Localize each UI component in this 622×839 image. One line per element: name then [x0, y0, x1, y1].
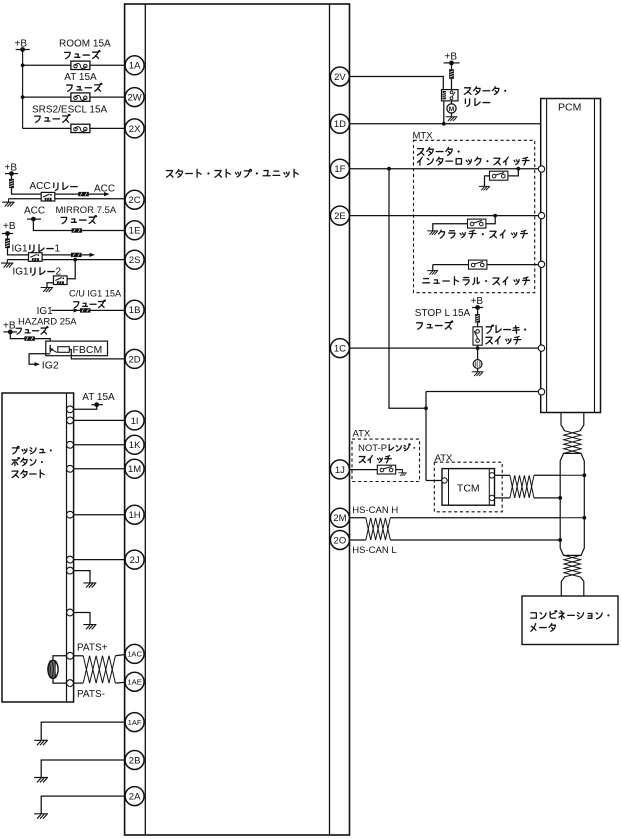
svg-text:C/U IG1 15A: C/U IG1 15A — [69, 288, 122, 298]
svg-text:2: 2 — [56, 266, 62, 277]
svg-text:1AE: 1AE — [127, 677, 141, 686]
svg-text:1K: 1K — [129, 440, 141, 451]
svg-text:HS-CAN L: HS-CAN L — [352, 545, 396, 556]
svg-text:SRS2/ESCL 15A: SRS2/ESCL 15A — [32, 104, 108, 115]
svg-text:2V: 2V — [334, 72, 346, 83]
svg-text:PATS-: PATS- — [77, 689, 105, 700]
svg-text:2J: 2J — [130, 555, 140, 566]
svg-text:MTX: MTX — [413, 130, 434, 141]
svg-text:2S: 2S — [129, 255, 141, 266]
svg-text:2X: 2X — [129, 124, 141, 135]
svg-text:AT 15A: AT 15A — [64, 72, 97, 83]
svg-text:2B: 2B — [129, 755, 141, 766]
svg-text:2A: 2A — [129, 792, 141, 803]
svg-text:TCM: TCM — [457, 483, 480, 495]
svg-text:PATS+: PATS+ — [77, 643, 108, 654]
svg-text:ACC: ACC — [30, 181, 51, 192]
svg-text:1D: 1D — [334, 119, 346, 130]
svg-text:+B: +B — [3, 221, 16, 232]
svg-text:1J: 1J — [335, 465, 345, 476]
svg-text:1: 1 — [55, 243, 61, 254]
svg-text:2M: 2M — [333, 513, 346, 524]
svg-text:2D: 2D — [129, 354, 141, 365]
svg-text:1H: 1H — [129, 510, 141, 521]
svg-text:ACC: ACC — [24, 206, 45, 217]
svg-text:ACC: ACC — [94, 184, 115, 195]
svg-text:2W: 2W — [127, 93, 141, 104]
svg-text:ROOM 15A: ROOM 15A — [59, 39, 111, 50]
svg-text:M: M — [449, 106, 454, 113]
svg-text:STOP L 15A: STOP L 15A — [415, 308, 471, 319]
svg-text:2O: 2O — [334, 535, 347, 546]
svg-text:PCM: PCM — [558, 102, 581, 114]
svg-text:1I: 1I — [131, 416, 139, 427]
svg-text:1AF: 1AF — [128, 718, 142, 727]
svg-text:NOT-P: NOT-P — [358, 443, 387, 454]
svg-text:+B: +B — [3, 320, 16, 331]
svg-text:HAZARD 25A: HAZARD 25A — [18, 316, 77, 327]
svg-text:1B: 1B — [129, 305, 141, 316]
svg-text:1AC: 1AC — [127, 650, 142, 659]
svg-text:ATX: ATX — [353, 429, 371, 440]
svg-text:IG2: IG2 — [42, 359, 59, 371]
svg-text:1C: 1C — [334, 344, 346, 355]
svg-text:1M: 1M — [128, 464, 141, 475]
svg-text:1E: 1E — [129, 226, 141, 237]
svg-text:1A: 1A — [129, 61, 141, 72]
svg-text:1F: 1F — [334, 164, 345, 175]
svg-text:AT 15A: AT 15A — [82, 392, 115, 403]
svg-text:FBCM: FBCM — [73, 344, 103, 356]
svg-text:HS-CAN H: HS-CAN H — [352, 505, 398, 516]
svg-text:2C: 2C — [129, 195, 141, 206]
svg-text:2E: 2E — [334, 211, 346, 222]
svg-text:IG1: IG1 — [12, 243, 29, 254]
svg-text:IG1: IG1 — [13, 266, 30, 277]
svg-text:MIRROR 7.5A: MIRROR 7.5A — [56, 205, 117, 216]
